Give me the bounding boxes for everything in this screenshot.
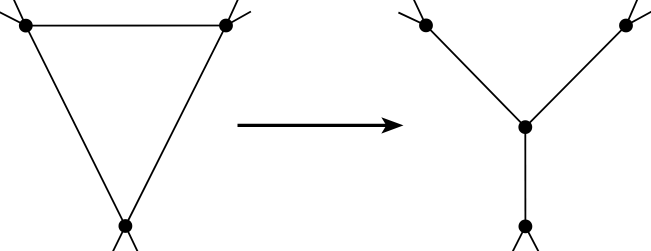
node B (delta top-right terminal) xyxy=(219,19,233,33)
wire: delta top edge A-B xyxy=(26,25,226,27)
node B' (wye top-right terminal) xyxy=(619,19,633,33)
wire: wye edge B'-M xyxy=(525,26,626,128)
wire: delta right edge B-C xyxy=(125,26,226,227)
wire: wye edge M-C' xyxy=(524,127,526,226)
wire: delta left edge A-C xyxy=(26,26,126,226)
wire: wye edge A'-M xyxy=(426,25,525,127)
wire: external lead at node B', shallow xyxy=(626,12,651,26)
wire: external lead at node A', shallow xyxy=(398,13,426,26)
wire: external lead at node C', down-left xyxy=(513,226,526,251)
arrow: delta-to-wye transformation xyxy=(238,117,404,133)
wire: external lead at node B', steep xyxy=(626,0,637,26)
wire: external lead at node C', down-right xyxy=(525,226,538,251)
node A (delta top-left terminal) xyxy=(19,19,33,33)
wire: external lead at node C, down-left xyxy=(113,226,126,251)
node C (delta bottom terminal) xyxy=(119,219,133,233)
wire: external lead at node C, down-right xyxy=(125,226,137,251)
node A' (wye top-left terminal) xyxy=(419,19,433,33)
wire: external lead at node A, steep xyxy=(14,0,26,26)
wire: external lead at node B, shallow xyxy=(226,12,251,26)
node M (wye center junction) xyxy=(518,120,532,134)
node C' (wye bottom terminal) xyxy=(519,220,533,234)
wire: external lead at node B, steep xyxy=(226,0,238,26)
wire: external lead at node A', steep xyxy=(414,0,426,25)
wire: external lead at node A, shallow xyxy=(0,12,26,26)
